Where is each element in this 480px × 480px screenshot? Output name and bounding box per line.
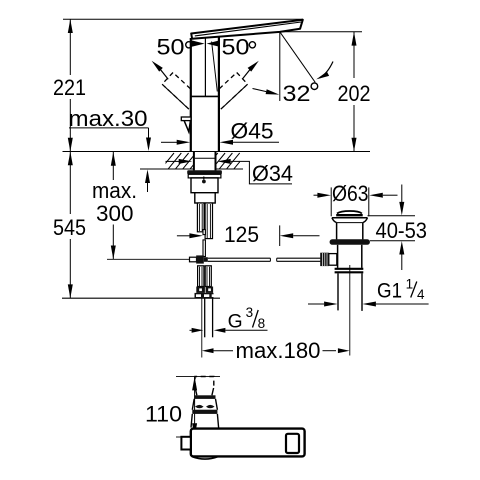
spout body top view <box>191 429 305 457</box>
hose tail right below T <box>205 266 211 287</box>
rod knob on drain <box>320 253 337 266</box>
mounting nut <box>191 177 218 193</box>
wire countertop top line <box>63 151 371 153</box>
svg-text:32: 32 <box>283 81 311 106</box>
svg-text:Ø45: Ø45 <box>231 119 274 144</box>
gasket under countertop <box>187 170 222 174</box>
pull rod upper segments <box>203 230 205 257</box>
svg-text:202: 202 <box>338 81 371 106</box>
svg-text:3: 3 <box>246 305 254 320</box>
svg-text:4: 4 <box>417 287 425 302</box>
dimension 110 <box>145 377 197 437</box>
countertop hatch <box>160 153 254 170</box>
dimension 221 <box>53 19 86 151</box>
wire bottom reference line 545 <box>62 297 220 299</box>
wire drain center line <box>349 265 351 356</box>
dimension 202 <box>338 32 371 152</box>
drain mid body <box>338 245 362 268</box>
lower mounting block <box>195 193 215 203</box>
wire rod level line max.300 <box>107 258 190 260</box>
svg-text:125: 125 <box>224 222 259 247</box>
drain upper body <box>337 223 363 240</box>
wire spout-lip extension line for 202 <box>280 31 362 33</box>
rod T-connector <box>190 255 208 263</box>
svg-text:1: 1 <box>406 277 414 292</box>
svg-text:max.30: max.30 <box>69 106 148 131</box>
drain tail pipe <box>338 273 362 311</box>
svg-text:max.180: max.180 <box>236 338 321 363</box>
bonnet <box>191 414 219 428</box>
drain flange <box>332 218 368 223</box>
threaded tail pipe G3/8 <box>205 298 213 337</box>
svg-text:G1: G1 <box>377 280 402 303</box>
drain joint band <box>335 269 364 273</box>
body bottom arc <box>192 457 218 460</box>
dimension diameter 34 <box>166 159 294 186</box>
faucet shank through countertop <box>194 152 216 171</box>
dashed lever left <box>162 73 199 109</box>
svg-text:G: G <box>228 311 243 333</box>
wire top extension line 110 <box>176 376 220 378</box>
hose nuts <box>196 287 213 293</box>
lever blade dashed (top view) <box>195 377 214 389</box>
svg-text:50: 50 <box>157 35 185 60</box>
dashed lever right <box>210 73 247 109</box>
lever pivot hook left <box>181 117 191 132</box>
wire top extension line <box>63 18 303 20</box>
svg-text:40-53: 40-53 <box>376 218 428 243</box>
aerator window <box>286 434 299 453</box>
label 50 deg right <box>207 35 259 80</box>
svg-text:300: 300 <box>96 201 134 226</box>
drain gasket ring <box>330 239 370 245</box>
mounting plate on reference line <box>195 293 214 298</box>
dimension 125 <box>177 222 320 247</box>
svg-text:545: 545 <box>53 215 86 240</box>
washer <box>188 174 221 178</box>
supply hose left <box>197 203 204 232</box>
wire max.180 left extension line <box>201 298 203 357</box>
dimension G3/8 <box>190 305 268 333</box>
side outlet square <box>181 437 190 450</box>
dimension G1 1/4 <box>308 277 429 307</box>
svg-text:110: 110 <box>145 402 182 427</box>
dimension 545 <box>53 152 86 299</box>
dimension diameter 63 <box>314 181 398 216</box>
faucet column body <box>191 37 219 152</box>
lever neck <box>194 388 215 399</box>
faucet spout wedge <box>191 20 303 39</box>
cartridge cone <box>192 399 217 414</box>
svg-text:Ø34: Ø34 <box>252 161 293 186</box>
wire bottom extension line 110 <box>176 436 183 438</box>
dimension max.300 <box>92 152 137 259</box>
dimension max.30 <box>69 106 152 192</box>
dimension max.180 <box>202 338 350 363</box>
hose tail left below T <box>198 266 204 287</box>
svg-text:8: 8 <box>258 316 266 331</box>
label 32 deg <box>253 32 334 106</box>
drain pop-up cap <box>336 211 363 215</box>
wire spout top inner line <box>195 22 301 36</box>
dimension 40-53 <box>368 185 428 271</box>
horizontal pop-up rod <box>208 258 321 261</box>
svg-text:221: 221 <box>53 75 86 100</box>
dimension diameter 45 <box>161 119 279 145</box>
svg-text:max.: max. <box>92 178 137 203</box>
label 50 deg left <box>152 35 205 80</box>
supply hose right <box>205 203 212 239</box>
wire countertop bottom line <box>140 168 193 170</box>
svg-text:Ø63: Ø63 <box>332 181 369 206</box>
svg-text:50: 50 <box>222 35 250 60</box>
